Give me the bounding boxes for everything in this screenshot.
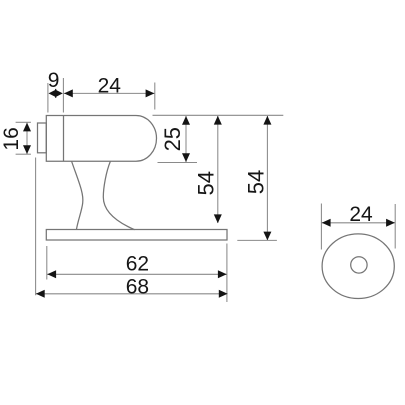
- stem right curve: [103, 161, 134, 229]
- svg-text:68: 68: [126, 275, 149, 298]
- dim 68 left arrow: [36, 290, 45, 298]
- dim 54 second bottom extension line: [237, 239, 277, 241]
- dim 62/68 right extension line: [226, 244, 228, 303]
- svg-text:9: 9: [48, 69, 60, 92]
- stem left curve: [72, 161, 83, 229]
- base plate: [46, 230, 227, 241]
- front view outer ellipse: [322, 234, 394, 299]
- svg-text:16: 16: [0, 127, 23, 150]
- dim 24 line: [63, 92, 154, 94]
- dim 25 down arrow: [182, 153, 190, 162]
- dim 54 first up arrow: [214, 116, 222, 125]
- front dim 24 left arrow: [322, 219, 331, 227]
- dim 54 second down arrow: [263, 232, 271, 241]
- svg-text:62: 62: [126, 252, 149, 275]
- dim 54 first down arrow: [214, 214, 222, 223]
- dim 16 line: [26, 122, 28, 154]
- knob head (side view capsule body): [46, 116, 156, 162]
- front view center hole: [351, 257, 367, 273]
- dim 62 left extension line: [46, 246, 48, 280]
- dim 9 extension line left: [47, 83, 49, 113]
- svg-text:24: 24: [98, 75, 122, 98]
- front dim 24 right arrow: [386, 219, 395, 227]
- shared top extension line (25/54/54): [153, 114, 284, 116]
- dim 16 extension line bottom: [16, 153, 31, 155]
- front dim 24 right extension line: [394, 204, 396, 249]
- rubber tip step rectangle: [38, 123, 47, 153]
- dim 9/24 shared extension line: [62, 78, 64, 113]
- dim 24 right arrow: [146, 89, 155, 97]
- front dim 24 line: [321, 222, 395, 224]
- knob neck divider line: [63, 116, 65, 162]
- svg-text:24: 24: [349, 203, 373, 226]
- dim 54 first line: [217, 116, 219, 223]
- svg-text:25: 25: [160, 127, 185, 151]
- dim 68 left extension line: [35, 158, 37, 296]
- dim 54 second up arrow: [263, 116, 271, 125]
- dim 24 left arrow: [64, 89, 73, 97]
- dim 62 left arrow: [47, 270, 56, 278]
- dim 25 line: [185, 116, 187, 162]
- dim 16 down arrow: [23, 145, 31, 154]
- dim 54 second line: [266, 116, 268, 240]
- svg-text:54: 54: [194, 171, 219, 195]
- dim 24 extension line right: [154, 83, 156, 110]
- front dim 24 left extension line: [320, 204, 322, 250]
- dim 9 arrows diamond: [49, 90, 56, 97]
- dim 16 up arrow: [23, 123, 31, 132]
- dim 9 center tick: [55, 89, 56, 98]
- svg-text:54: 54: [244, 170, 269, 194]
- dim 16 extension line top: [16, 121, 31, 123]
- dim 25 bottom extension line: [158, 162, 198, 164]
- dim 25 up arrow: [182, 116, 190, 125]
- dim 62 right arrow: [218, 270, 227, 278]
- dim 68 right arrow: [219, 290, 228, 298]
- dim 62 line: [47, 273, 227, 275]
- dim 68 line: [36, 293, 228, 295]
